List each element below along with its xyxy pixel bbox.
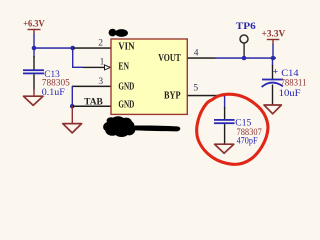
svg-text:10uF: 10uF (279, 89, 301, 99)
svg-text:BYP: BYP (164, 90, 181, 101)
red hand-drawn circle annotation around C15 (197, 94, 268, 164)
wire pin3 down to TAB node (72, 86, 73, 106)
svg-text:VIN: VIN (118, 42, 135, 53)
ground under C15 (215, 144, 234, 153)
svg-text:788305: 788305 (42, 78, 71, 88)
svg-text:3: 3 (98, 77, 103, 87)
node B junction (70, 46, 75, 51)
test point TP6 circle (240, 35, 248, 43)
BYP wire corner to C15 (216, 95, 226, 97)
svg-text:470pF: 470pF (237, 136, 258, 146)
node A junction (32, 46, 37, 51)
svg-text:TAB: TAB (84, 97, 103, 107)
wire node A to node B (VIN rail) (34, 47, 74, 49)
pin 2 stub to VIN (73, 47, 112, 49)
ground under C14 (264, 105, 281, 114)
TAB pin stub (72, 106, 111, 108)
node D junction (TP6) (242, 56, 247, 61)
power port +3.3V (262, 29, 286, 45)
wire +3.3V down to VOUT rail (272, 44, 273, 58)
svg-text:1: 1 (100, 57, 105, 67)
voltage regulator U3 body (designator redacted) (111, 39, 187, 114)
svg-text:4: 4 (194, 49, 199, 59)
pin 1 stub to EN (83, 67, 105, 68)
capacitor C14 (polarized) (262, 58, 283, 105)
pin 4 stub VOUT (188, 57, 216, 59)
wire to EN pin (72, 67, 83, 68)
ground under TAB node (63, 106, 82, 133)
ground under C13 (24, 90, 44, 106)
svg-text:2: 2 (98, 38, 103, 48)
wire node B down to EN row (72, 48, 73, 67)
svg-text:VOUT: VOUT (158, 53, 181, 64)
svg-text:5: 5 (193, 84, 198, 94)
sheet background (0, 0, 320, 168)
svg-text:+3.3V: +3.3V (262, 29, 286, 39)
capacitor C13 (23, 49, 44, 90)
pin 3 stub GND (72, 86, 112, 88)
VOUT wire to +3.3V (216, 57, 277, 59)
svg-text:0.1uF: 0.1uF (42, 88, 65, 98)
pin 1 input arrow (105, 65, 111, 70)
power port +6.3V (23, 19, 45, 34)
svg-text:TP6: TP6 (236, 21, 257, 31)
svg-text:GND: GND (118, 100, 134, 111)
node C junction (TAB net) (70, 104, 75, 109)
black marker dots over designator (109, 29, 128, 37)
svg-text:GND: GND (118, 82, 134, 93)
svg-text:788311: 788311 (281, 78, 307, 88)
wire from +6.3V to node A (33, 34, 34, 49)
capacitor C15 (214, 107, 235, 144)
svg-text:EN: EN (118, 62, 129, 73)
svg-text:+: + (273, 67, 278, 77)
pin 5 stub BYP (188, 95, 216, 97)
black marker scribble over part number (103, 116, 180, 137)
test point TP6 stem (243, 43, 244, 58)
node E junction (+3.3V) (271, 56, 276, 61)
svg-text:+6.3V: +6.3V (23, 19, 45, 29)
